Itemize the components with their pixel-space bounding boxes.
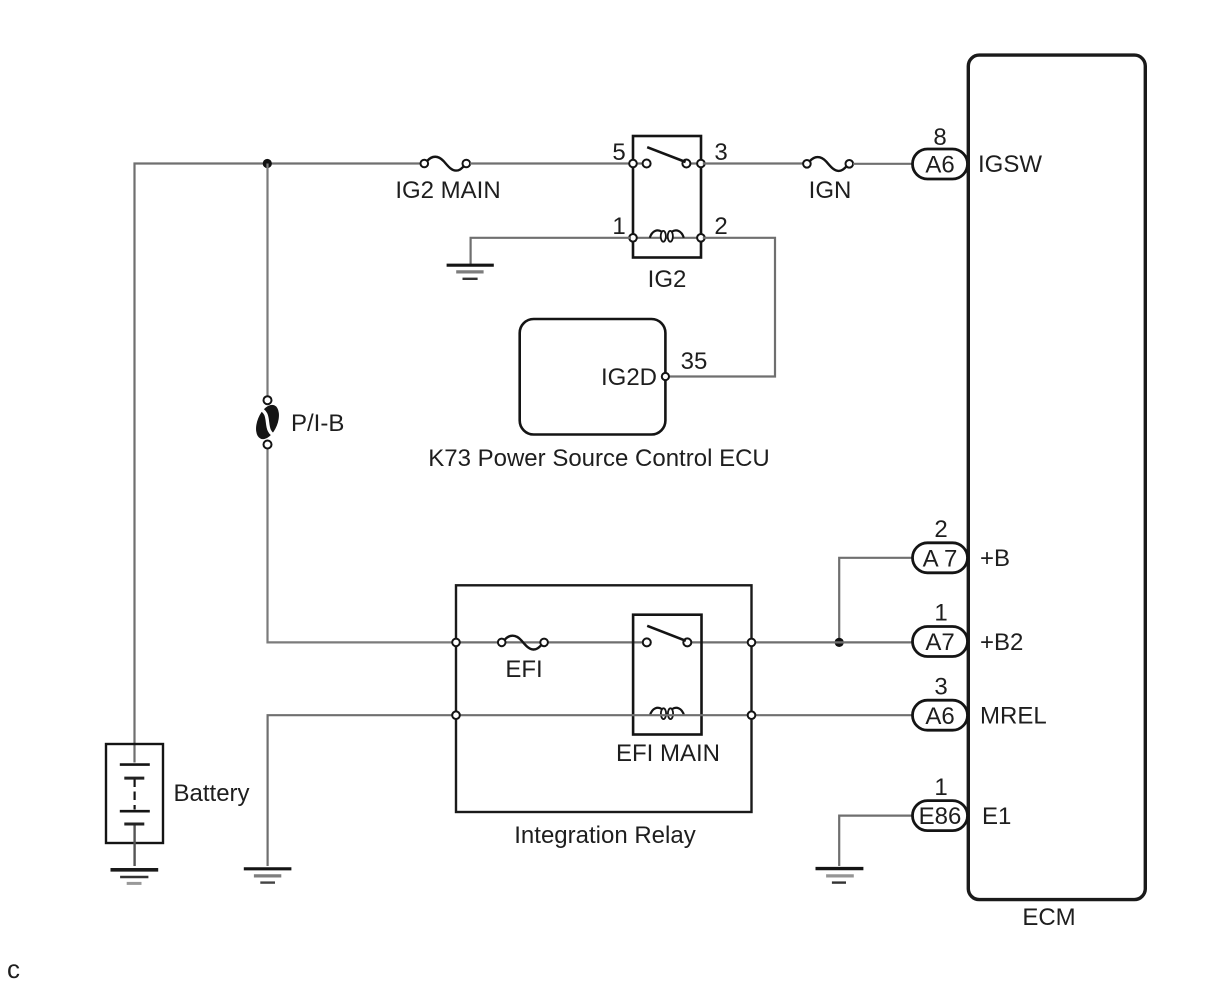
svg-text:MREL: MREL (980, 703, 1047, 730)
pin 8 label (933, 124, 946, 151)
svg-text:A6: A6 (925, 703, 954, 730)
label IG2 (648, 266, 687, 293)
label EFI MAIN (616, 740, 720, 767)
svg-text:+B2: +B2 (980, 629, 1023, 656)
wire EFI row inside relay (456, 641, 643, 643)
svg-text:2: 2 (934, 516, 947, 543)
fuse IG2 MAIN (421, 157, 471, 171)
plate long 1 (120, 763, 150, 766)
omitted cells dashes (134, 792, 136, 810)
relay IG2 (629, 136, 705, 258)
svg-text:c: c (7, 954, 20, 984)
pin 1 label (934, 774, 947, 801)
svg-text:1: 1 (934, 774, 947, 801)
wire battery top feed (135, 164, 421, 763)
wire IGN fuse to IGSW connector (853, 163, 912, 165)
wire after switch to right edge (691, 641, 754, 643)
svg-text:2: 2 (714, 213, 727, 240)
label IG2 MAIN (395, 177, 500, 204)
svg-text:1: 1 (934, 600, 947, 627)
ECM box (968, 55, 1145, 900)
svg-text:Integration Relay: Integration Relay (514, 822, 695, 849)
battery (106, 744, 163, 866)
plate short 1 with post below (124, 777, 144, 780)
integration relay edge terminals (452, 639, 755, 719)
label Battery (174, 780, 250, 807)
wire relay IG2 pin 2 to K73 pin 35 (669, 238, 775, 377)
node junction at battery feed / P-I-B branch (263, 159, 272, 168)
node junction +B2 (835, 638, 844, 647)
bottom lead (133, 826, 135, 867)
svg-text:EFI: EFI (505, 656, 542, 683)
wire P/I-B branch lower to EFI row (268, 445, 457, 643)
relay EFI MAIN (633, 615, 701, 735)
pin 3 label (934, 674, 947, 701)
connector A6 IGSW (913, 149, 968, 179)
ground (battery) (111, 870, 159, 884)
svg-text:K73 Power Source Control ECU: K73 Power Source Control ECU (428, 445, 769, 472)
internal wire stubs (633, 164, 701, 238)
label Integration Relay (514, 822, 695, 849)
switch contacts (643, 160, 651, 168)
K73 power source control ECU box (520, 319, 669, 435)
label pin 35 (681, 348, 708, 375)
label K73 Power Source Control ECU (428, 445, 769, 472)
fuse IGN (803, 157, 853, 171)
svg-text:IG2D: IG2D (601, 364, 657, 391)
wire E1 to ground (839, 816, 912, 866)
label ECM (1022, 904, 1075, 931)
wire MREL row (268, 715, 913, 866)
coil (650, 230, 662, 237)
svg-text:Battery: Battery (174, 780, 250, 807)
connector A7 +B2 (913, 627, 968, 657)
wire fuse to relay IG2 pin 5 (470, 162, 631, 164)
wire relay IG2 pin 3 to IGN fuse (703, 162, 803, 164)
label MREL (980, 703, 1047, 730)
coil (650, 708, 662, 715)
svg-text:+B: +B (980, 545, 1010, 572)
label +B2 (980, 629, 1023, 656)
fuse EFI (498, 636, 548, 650)
svg-text:IGSW: IGSW (978, 151, 1042, 178)
integration relay box (456, 585, 752, 812)
label IGN (809, 177, 852, 204)
page marker c (7, 954, 20, 984)
label P/I-B (291, 410, 344, 437)
shielded wire symbol P/I-B (251, 396, 283, 448)
svg-text:E1: E1 (982, 803, 1011, 830)
connector A 7 +B (913, 543, 968, 573)
switch blade (647, 626, 686, 641)
pin 2 label (934, 516, 947, 543)
svg-text:P/I-B: P/I-B (291, 410, 344, 437)
pin circles on box edges (629, 160, 637, 168)
svg-text:ECM: ECM (1022, 904, 1075, 931)
svg-text:A 7: A 7 (923, 545, 958, 572)
pin 5 label (612, 139, 625, 166)
svg-text:3: 3 (714, 139, 727, 166)
wire +B branch (839, 558, 912, 643)
svg-text:5: 5 (612, 139, 625, 166)
ground (MREL branch) (244, 869, 292, 883)
svg-text:IGN: IGN (809, 177, 852, 204)
wire relay IG2 pin 1 to ground (471, 238, 631, 264)
pin 1 label (934, 600, 947, 627)
svg-text:35: 35 (681, 348, 708, 375)
switch contacts (643, 638, 651, 646)
svg-text:8: 8 (933, 124, 946, 151)
label IGSW (978, 151, 1042, 178)
wire P/I-B branch upper (266, 164, 268, 401)
svg-text:3: 3 (934, 674, 947, 701)
svg-text:1: 1 (612, 213, 625, 240)
svg-text:IG2 MAIN: IG2 MAIN (395, 177, 500, 204)
ground (E1) (816, 869, 864, 883)
label +B (980, 545, 1010, 572)
wire relay output to +B2 (754, 641, 913, 643)
svg-text:A6: A6 (925, 152, 954, 179)
svg-text:EFI MAIN: EFI MAIN (616, 740, 720, 767)
label EFI (505, 656, 542, 683)
plate short 2 with post below (124, 823, 144, 826)
svg-text:A7: A7 (925, 629, 954, 656)
svg-text:E86: E86 (919, 803, 962, 830)
label E1 (982, 803, 1011, 830)
pin 1 label (612, 213, 625, 240)
switch blade (647, 147, 685, 162)
connector E86 E1 (913, 801, 968, 831)
ground (IG2 coil) (447, 265, 494, 279)
pin 2 label (714, 213, 727, 240)
pin 3 label (714, 139, 727, 166)
connector A6 MREL (913, 700, 968, 730)
svg-text:IG2: IG2 (648, 266, 687, 293)
plate long 2 (120, 810, 150, 813)
